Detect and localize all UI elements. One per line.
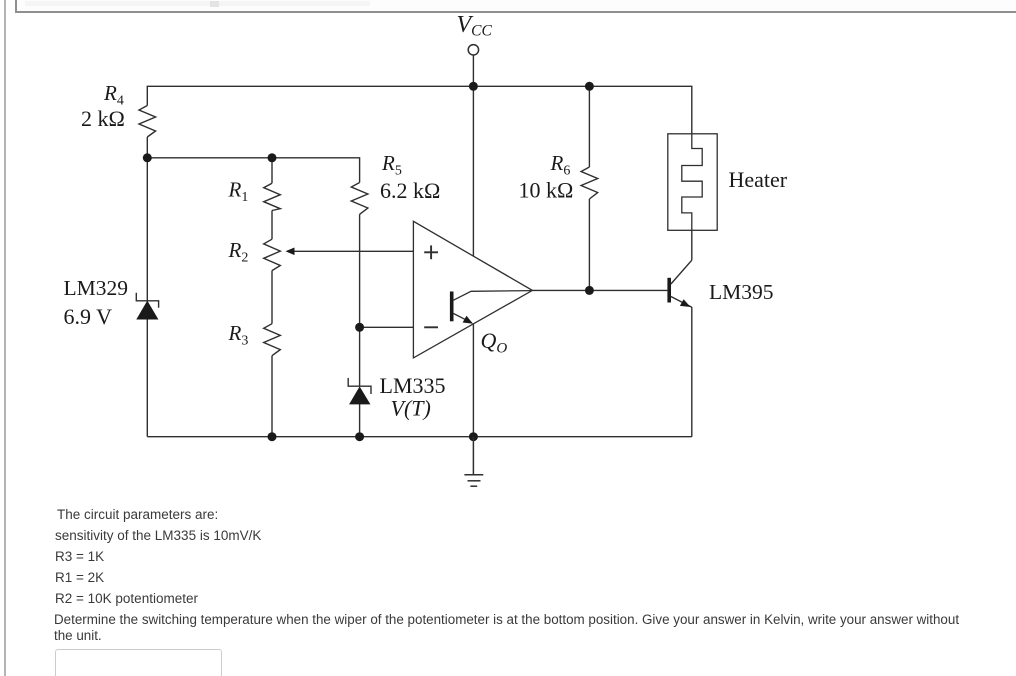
junction dot output <box>585 286 594 295</box>
svg-text:10 kΩ: 10 kΩ <box>519 178 574 203</box>
op-amp minus sign <box>424 326 438 328</box>
svg-text:Heater: Heater <box>729 167 788 192</box>
svg-text:R3: R3 <box>228 321 249 349</box>
wire R1 top lead <box>271 158 273 183</box>
wire LM335 to bottom <box>359 404 361 437</box>
zener diode LM335 sensor <box>348 378 371 404</box>
zener diode LM329 <box>136 293 158 319</box>
op-amp plus sign <box>424 245 438 259</box>
svg-text:R6: R6 <box>550 151 571 179</box>
problem text <box>57 507 218 522</box>
wire bottom rail <box>147 436 692 438</box>
transistor LM395 <box>669 260 692 307</box>
svg-text:LM335: LM335 <box>380 373 446 398</box>
junction dot minus node <box>355 323 364 332</box>
resistor R5 <box>351 183 368 215</box>
svg-text:VCC: VCC <box>457 12 493 40</box>
output transistor inside op-amp <box>452 291 532 324</box>
resistor R6 <box>581 167 598 199</box>
wire Vcc rail to op-amp <box>472 86 474 256</box>
wire R6 top lead <box>588 86 590 167</box>
terminal Vcc <box>468 45 478 55</box>
svg-text:6.9 V: 6.9 V <box>64 304 113 329</box>
resistor R1 <box>264 183 281 210</box>
svg-text:V(T): V(T) <box>391 396 431 421</box>
junction dot bottom R3 <box>268 432 277 441</box>
svg-text:R1: R1 <box>228 178 249 206</box>
answer input box <box>55 649 222 676</box>
svg-text:LM395: LM395 <box>709 280 774 304</box>
ground <box>464 437 483 487</box>
wire emitter rail right <box>691 307 693 437</box>
junction dot top R6 <box>585 82 594 91</box>
svg-text:R5: R5 <box>381 151 402 179</box>
heater element <box>668 134 717 231</box>
left page rule <box>4 0 6 676</box>
wire R5 to minus node <box>359 214 361 386</box>
svg-text:R2: R2 <box>228 238 249 266</box>
top panel bottom/left border <box>15 0 1016 13</box>
op-amp U1 comparator <box>413 221 532 358</box>
wire left rail <box>146 158 148 302</box>
wire R6 bottom lead <box>588 199 590 290</box>
wire top rail <box>147 86 692 134</box>
wire left rail lower <box>146 319 148 437</box>
svg-text:2 kΩ: 2 kΩ <box>81 106 125 131</box>
junction dot mid R1 <box>268 153 277 162</box>
wire plus input from wiper <box>293 250 414 252</box>
resistor R3 <box>264 324 281 356</box>
wire R2-R3 lead <box>271 271 273 324</box>
svg-text:6.2 kΩ: 6.2 kΩ <box>380 178 440 203</box>
junction dot bottom ground <box>469 432 478 441</box>
wire op-amp output <box>532 289 667 291</box>
resistor R4 <box>139 106 156 138</box>
wire R3 bottom lead <box>271 356 273 437</box>
resistor R2 potentiometer <box>264 239 281 270</box>
wire heater to collector <box>691 230 693 260</box>
svg-text:R4: R4 <box>103 81 124 109</box>
wire mid rail <box>147 137 359 183</box>
junction dot mid left <box>143 153 152 162</box>
wire Qo emitter rail <box>472 324 474 437</box>
wire minus input <box>360 326 414 328</box>
wiper arrow of R2 <box>286 248 295 256</box>
junction dot top Vcc <box>469 82 478 91</box>
svg-text:QO: QO <box>481 328 508 357</box>
wire Vcc stub <box>472 55 474 86</box>
wire R1-R2 lead <box>271 211 273 240</box>
junction dot bottom LM335 <box>355 432 364 441</box>
svg-text:LM329: LM329 <box>64 276 129 300</box>
